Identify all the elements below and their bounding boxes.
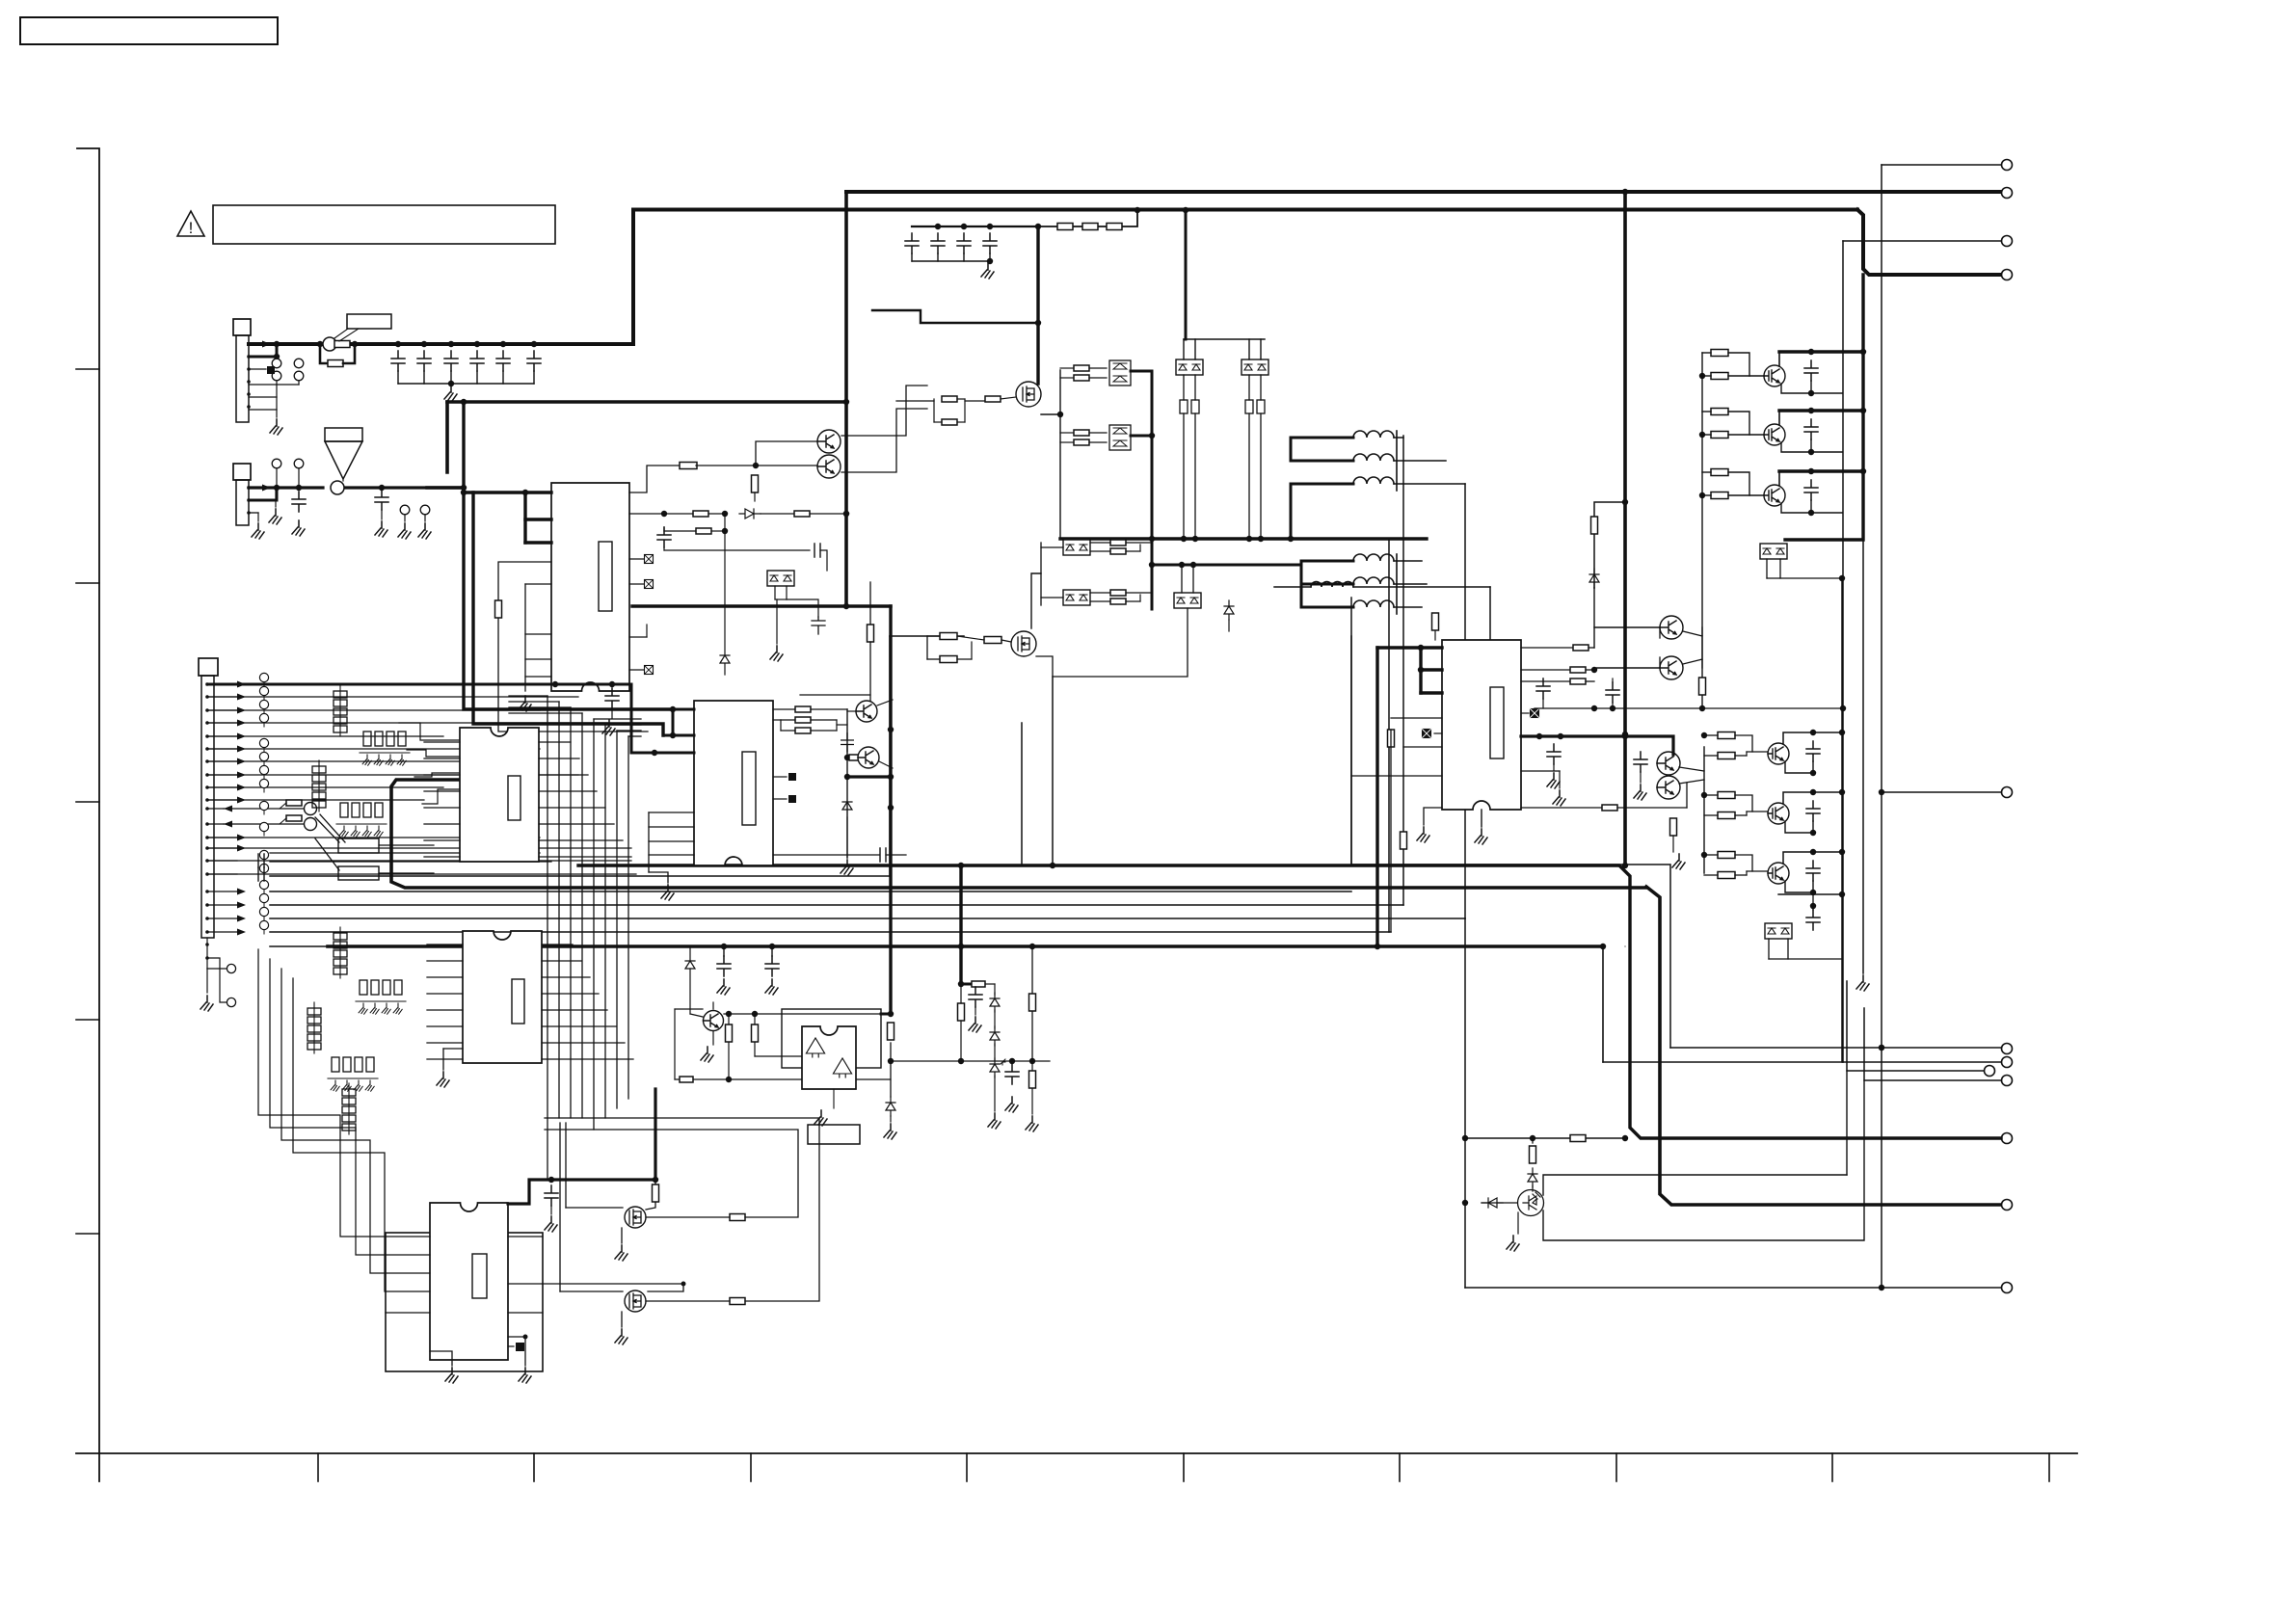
- svg-text:!: !: [189, 219, 194, 237]
